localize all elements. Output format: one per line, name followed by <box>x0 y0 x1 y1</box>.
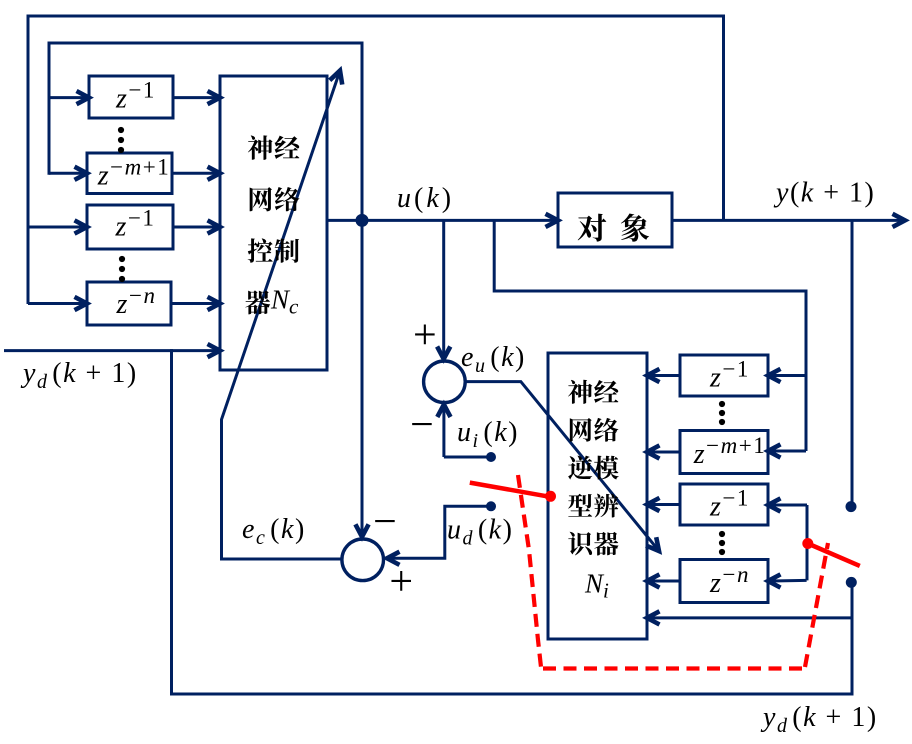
svg-text:ud (k): ud (k) <box>447 515 513 550</box>
svg-text:u(k): u(k) <box>397 183 454 214</box>
svg-text:+: + <box>389 559 413 605</box>
svg-text:y(k + 1): y(k + 1) <box>773 178 875 209</box>
svg-text:ec (k): ec (k) <box>242 514 306 549</box>
svg-text:−: − <box>410 402 434 448</box>
svg-text:−: − <box>373 499 397 545</box>
svg-text:+: + <box>413 313 437 359</box>
svg-text:ui (k): ui (k) <box>457 417 519 452</box>
svg-text:eu (k): eu (k) <box>461 342 526 377</box>
